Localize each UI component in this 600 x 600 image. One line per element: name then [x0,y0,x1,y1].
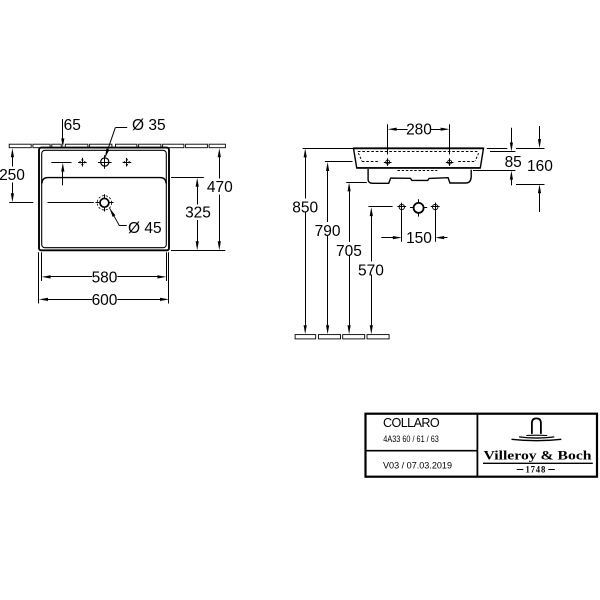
dimension 280 [387,124,389,154]
svg-text:850: 850 [292,199,318,216]
1748 side dashes [517,469,524,471]
svg-text:V03 / 07.03.2019: V03 / 07.03.2019 [383,460,452,471]
front view: hidden basin bottom behind shroud (dashed) [398,170,438,172]
front view: right tap hole [446,162,454,164]
svg-text:150: 150 [406,230,432,247]
front view: hidden deck line (dashed) [358,151,479,153]
top view: basin centreline through drain [48,202,94,204]
svg-text:Ø 35: Ø 35 [132,117,166,134]
dimension 65 [62,119,64,139]
dimension 250 [11,148,14,157]
svg-text:280: 280 [406,121,432,138]
V&B logo ripple 3 [512,439,562,440]
title block divider vertical [476,414,478,477]
top view: bowl deck edge line [42,178,166,184]
wall hatch band (top view) [9,144,31,148]
top view: left alternative tap position cross [78,162,87,164]
leader and label Ø 35 [115,127,127,129]
svg-text:470: 470 [207,179,233,196]
svg-text:Ø 45: Ø 45 [128,220,162,237]
svg-text:160: 160 [527,158,553,175]
front view: rim body [354,148,484,168]
svg-text:4A33 60 / 61 / 63: 4A33 60 / 61 / 63 [383,434,439,445]
V&B logo ripple 1 [526,434,547,436]
front view: hidden bowl bottom left (dashed) [358,153,361,161]
dimension 85 [490,151,515,153]
dimension 705 [346,182,367,184]
front view: drain outlet [410,207,427,209]
title block frame [366,414,598,477]
svg-text:85: 85 [505,154,522,171]
dimension 150 [401,212,403,242]
svg-text:705: 705 [336,243,362,260]
front view: right fixing hole [431,206,440,208]
top view: centre tap hole [98,162,112,164]
V&B logo ripple 2 [519,437,554,438]
svg-text:COLLARO: COLLARO [383,416,440,430]
top view: right alternative tap position cross [123,162,132,164]
svg-text:600: 600 [92,292,118,309]
title block divider horizontal [366,450,478,452]
front view: left fixing hole [397,206,406,208]
leader and label Ø 45 [110,208,127,225]
dimension 470 [171,250,225,252]
front view: left tap hole [384,162,392,164]
top view: basin inner rim line [42,150,167,247]
top view: basin outer outline [39,148,169,251]
dimension 580 [41,252,43,281]
dimension 325 [171,177,204,179]
svg-text:250: 250 [0,167,25,184]
svg-text:570: 570 [358,262,384,279]
V&B logo fountain arch [532,418,541,434]
dimension 160 [487,148,508,150]
dimension 570 [368,206,392,208]
svg-text:1748: 1748 [526,464,547,474]
top view: drain hole [96,202,114,204]
V&B wordmark underline [483,462,593,464]
svg-text:790: 790 [315,223,341,240]
dimension 790 [325,161,353,163]
svg-text:65: 65 [64,117,81,134]
front view: shroud / semi-pedestal outline [368,169,471,183]
floor hatch band [295,335,316,339]
svg-text:580: 580 [92,270,118,287]
front view: hidden bowl bottom right (dashed) [475,153,478,161]
dimension 850 [303,148,354,150]
svg-text:Villeroy & Boch: Villeroy & Boch [484,447,593,462]
dimension 600 [38,252,40,303]
svg-text:325: 325 [185,205,211,222]
